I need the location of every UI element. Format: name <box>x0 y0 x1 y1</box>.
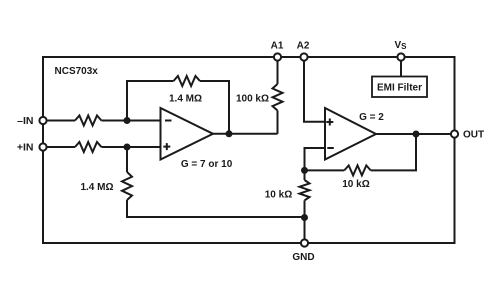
svg-text:OUT: OUT <box>463 129 484 140</box>
svg-text:1.4 MΩ: 1.4 MΩ <box>169 93 202 104</box>
op-amp U1 <box>161 108 214 160</box>
wire 10 kΩ ground leg to bottom rail node <box>304 200 306 217</box>
svg-text:G = 7 or 10: G = 7 or 10 <box>181 159 233 170</box>
wire VS terminal to EMI filter <box>400 61 402 77</box>
resistor 1.4 MΩ feedback <box>174 76 200 86</box>
resistor 10 kΩ feedback horizontal <box>344 165 370 175</box>
svg-text:VS: VS <box>395 40 408 51</box>
svg-text:NCS703x: NCS703x <box>55 66 99 77</box>
wire -IN input to first series resistor <box>46 120 75 122</box>
U1 inverting input minus sign <box>165 120 172 122</box>
junction dot U2 output node <box>413 131 420 138</box>
junction dot U1 output node <box>226 130 233 137</box>
terminal -IN <box>39 117 46 124</box>
wire +IN input to second series resistor <box>46 146 75 148</box>
wire U2 inverting node down to 10 kΩ ground resistor <box>304 170 306 180</box>
resistor 10 kΩ ground leg vertical <box>300 180 310 200</box>
wire +IN junction down to 1.4 MΩ ground-leg resistor <box>126 147 128 172</box>
svg-text:–IN: –IN <box>17 115 33 127</box>
wire 10 kΩ feedback to U2 inverting node <box>305 169 345 171</box>
svg-text:100 kΩ: 100 kΩ <box>236 93 269 104</box>
svg-text:10 kΩ: 10 kΩ <box>265 189 292 200</box>
wire bottom rail node to GND terminal <box>304 217 306 240</box>
wire U1 output to 100 kΩ branch <box>213 133 278 135</box>
terminal A1 <box>274 53 281 60</box>
junction dot bottom rail node <box>301 214 308 221</box>
svg-text:A2: A2 <box>297 41 310 52</box>
terminal +IN <box>39 143 46 150</box>
junction dot U2 inverting node <box>301 167 308 174</box>
EMI filter block <box>372 77 427 98</box>
resistor R2 (+IN series) <box>75 142 101 152</box>
wire feedback left vertical and top run to 1.4 MΩ <box>127 81 174 121</box>
svg-text:EMI Filter: EMI Filter <box>377 83 422 94</box>
wire U2 output node down to 10 kΩ feedback <box>371 134 416 170</box>
wire 1.4 MΩ ground leg to bottom rail node <box>127 200 305 217</box>
wire R2 to U1 non-inverting input <box>101 146 160 148</box>
wire 100 kΩ top to terminal A1 <box>277 61 279 85</box>
U2 non-inverting input plus sign vertical <box>329 119 331 126</box>
svg-text:G = 2: G = 2 <box>359 112 384 123</box>
U1 non-inverting input plus sign horizontal <box>163 146 170 148</box>
wire U2 output to OUT terminal <box>376 133 451 135</box>
U1 non-inverting input plus sign vertical <box>166 143 168 150</box>
U2 non-inverting input plus sign horizontal <box>326 121 333 123</box>
svg-text:GND: GND <box>292 252 314 263</box>
terminal A2 <box>300 53 307 60</box>
terminal VS <box>397 53 404 60</box>
resistor R1 (-IN series) <box>75 116 101 126</box>
svg-text:+IN: +IN <box>17 141 34 153</box>
wire 100 kΩ bottom to output node <box>277 111 279 134</box>
resistor 1.4 MΩ ground leg <box>122 172 132 200</box>
U2 inverting input minus sign <box>327 147 334 149</box>
wire U2 inverting input to feedback node <box>305 148 326 170</box>
resistor 100 kΩ vertical <box>273 84 283 111</box>
IC boundary box NCS703x <box>43 57 455 243</box>
junction dot +IN line <box>124 144 131 151</box>
op-amp U2 <box>325 108 376 160</box>
wire terminal A2 down to U2 non-inverting input <box>304 61 325 122</box>
terminal OUT <box>451 130 458 137</box>
wire 1.4 MΩ feedback to U1 output node <box>200 81 229 134</box>
svg-text:1.4 MΩ: 1.4 MΩ <box>80 182 113 193</box>
junction dot -IN line <box>124 117 131 124</box>
terminal GND <box>301 239 308 246</box>
svg-text:10 kΩ: 10 kΩ <box>342 179 369 190</box>
svg-text:A1: A1 <box>271 41 284 52</box>
wire R1 to U1 inverting input <box>101 120 160 122</box>
